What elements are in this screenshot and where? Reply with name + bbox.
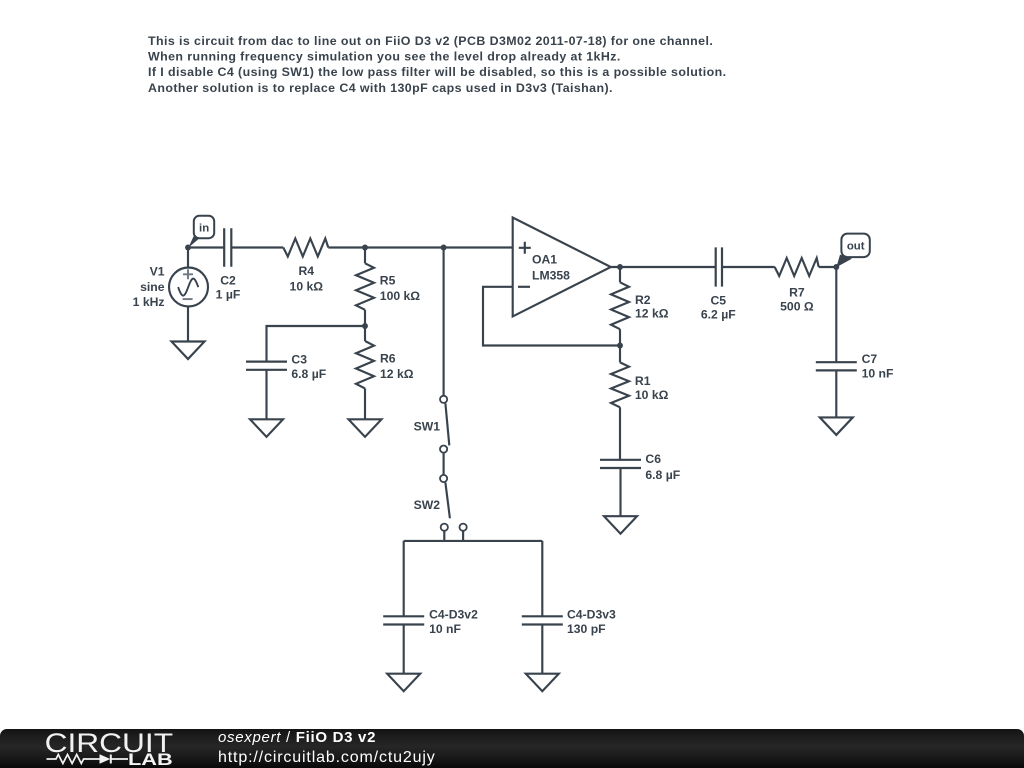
svg-text:10 nF: 10 nF (429, 622, 461, 636)
svg-text:12 kΩ: 12 kΩ (635, 307, 669, 321)
svg-text:SW2: SW2 (414, 498, 441, 512)
svg-text:C2: C2 (220, 273, 236, 287)
svg-text:V1: V1 (150, 265, 165, 279)
svg-text:R4: R4 (299, 264, 315, 278)
svg-text:sine: sine (140, 280, 165, 294)
svg-text:10 kΩ: 10 kΩ (290, 280, 324, 294)
svg-text:12 kΩ: 12 kΩ (380, 367, 414, 381)
svg-text:R6: R6 (380, 352, 396, 366)
svg-text:R2: R2 (635, 293, 651, 307)
svg-text:C6: C6 (645, 452, 661, 466)
svg-text:130 pF: 130 pF (567, 622, 606, 636)
svg-text:SW1: SW1 (414, 419, 441, 433)
svg-text:6.8 µF: 6.8 µF (291, 367, 326, 381)
svg-text:100 kΩ: 100 kΩ (380, 289, 420, 303)
svg-text:in: in (199, 222, 209, 234)
svg-text:1 kHz: 1 kHz (133, 295, 165, 309)
svg-text:10 kΩ: 10 kΩ (635, 388, 669, 402)
svg-text:LAB: LAB (128, 750, 173, 768)
svg-text:R5: R5 (380, 274, 396, 288)
svg-text:C7: C7 (862, 352, 878, 366)
svg-text:R1: R1 (635, 374, 651, 388)
svg-text:OA1: OA1 (532, 252, 557, 266)
svg-text:When running frequency simulat: When running frequency simulation you se… (148, 50, 621, 64)
svg-text:LM358: LM358 (532, 268, 570, 282)
svg-text:out: out (847, 240, 865, 252)
svg-text:C5: C5 (711, 294, 727, 308)
svg-text:If I disable C4 (using SW1) th: If I disable C4 (using SW1) the low pass… (148, 65, 726, 79)
svg-text:1 µF: 1 µF (216, 288, 241, 302)
svg-text:10 nF: 10 nF (862, 366, 894, 380)
svg-text:C3: C3 (291, 352, 307, 366)
svg-text:6.2 µF: 6.2 µF (701, 307, 736, 321)
svg-text:500 Ω: 500 Ω (780, 300, 814, 314)
svg-text:This is circuit from dac to li: This is circuit from dac to line out on … (148, 34, 713, 48)
svg-text:Another solution is to replace: Another solution is to replace C4 with 1… (148, 81, 613, 95)
svg-text:C4-D3v2: C4-D3v2 (429, 608, 478, 622)
svg-text:R7: R7 (789, 285, 805, 299)
svg-text:6.8 µF: 6.8 µF (645, 468, 680, 482)
svg-text:C4-D3v3: C4-D3v3 (567, 608, 616, 622)
